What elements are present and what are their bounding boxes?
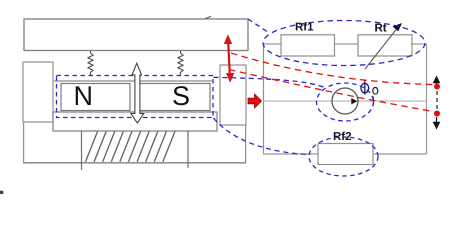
blue dashed ellipse around flux circle [317, 83, 374, 121]
svg-text:N: N [74, 81, 94, 111]
resistor Rf1 [281, 35, 335, 56]
right frame vertical [245, 125, 247, 163]
moving plate under magnets [53, 112, 217, 131]
stray mark bottom left [0, 191, 4, 195]
circuit right vertical wire [426, 44, 428, 154]
blue leader from magnet box to Rf2 ellipse [214, 118, 310, 155]
hatching [86, 132, 175, 162]
pedestal left edge [81, 131, 83, 170]
base line [23, 162, 246, 164]
pen tick on bar [205, 16, 211, 18]
direction arrowhead in circle [351, 98, 357, 104]
thick red block arrow (force input) [248, 94, 262, 108]
red dashed leader to upper dot [231, 53, 433, 85]
Rt adjustable arrow [365, 27, 399, 70]
top branch wire right [411, 43, 427, 45]
blue leader from magnet box to flux ellipse [214, 77, 328, 89]
left frame vertical [23, 122, 25, 163]
bottom branch wire left [263, 153, 318, 155]
spring left [88, 51, 93, 76]
blue leader from bar corner to top ellipse [248, 19, 270, 34]
output dot 2 [434, 111, 440, 117]
magnet S block [137, 84, 210, 111]
wire between Rf1 and Rt [334, 43, 358, 45]
output dot 1 [434, 84, 440, 90]
blue dashed ellipse around Rf1 Rt [263, 21, 425, 66]
svg-text:Rt: Rt [375, 23, 387, 35]
flux source circle [332, 88, 358, 114]
output up arrow [436, 80, 438, 84]
red dashed leader to lower dot [229, 70, 433, 112]
left wall [23, 62, 53, 122]
right wall [220, 65, 246, 125]
bottom branch wire right [374, 153, 427, 155]
phi0 symbol [361, 80, 369, 94]
red double arrow (displacement) [224, 34, 235, 82]
svg-text:S: S [172, 81, 190, 111]
dashed blue rect around magnet assembly [57, 76, 214, 118]
magnet carrier top line [54, 80, 212, 82]
white double arrow (vibration) [131, 63, 144, 123]
pedestal right edge [187, 131, 189, 168]
top bar (shaker frame top) [24, 19, 248, 51]
circuit left vertical wire [263, 44, 265, 154]
middle branch wire [263, 100, 427, 102]
spring right [178, 51, 183, 76]
output dashed link [436, 91, 438, 109]
resistor Rt [358, 35, 412, 56]
top branch wire left [263, 43, 281, 45]
output down arrow [436, 117, 438, 122]
resistor Rf2 [318, 144, 373, 165]
magnet N block [61, 84, 130, 111]
blue dashed ellipse around Rf2 [309, 137, 378, 176]
